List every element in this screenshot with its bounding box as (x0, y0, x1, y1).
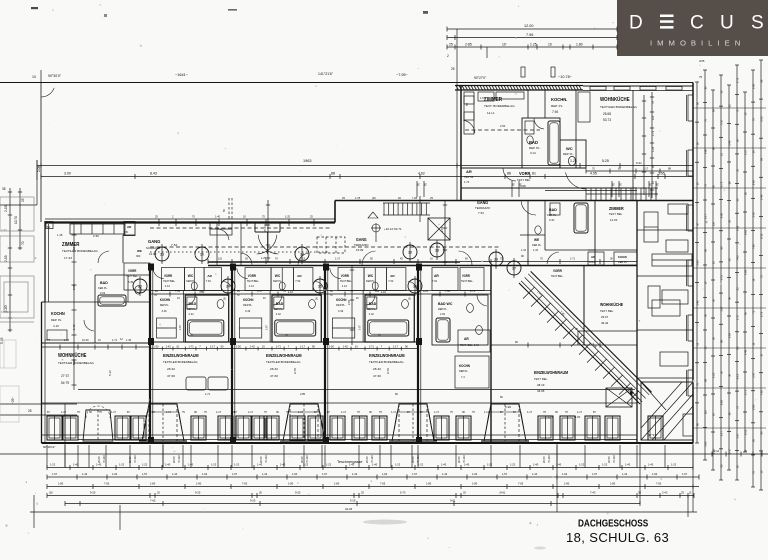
svg-text:20-59: 20-59 (607, 456, 611, 463)
svg-text:47·60: 47·60 (167, 374, 175, 378)
svg-text:110: 110 (704, 410, 708, 415)
svg-text:90°16'12'': 90°16'12'' (43, 445, 56, 449)
svg-text:EINZELWOHNRAUM: EINZELWOHNRAUM (369, 353, 405, 358)
svg-text:7-65: 7-65 (175, 289, 181, 293)
svg-text:KOCHN: KOCHN (243, 298, 253, 302)
svg-text:7-65: 7-65 (736, 255, 740, 261)
svg-text:TEXT. BEL.: TEXT. BEL. (609, 212, 623, 216)
svg-text:1-17: 1-17 (643, 167, 649, 171)
svg-text:20-59: 20-59 (365, 456, 369, 463)
svg-text:1-40: 1-40 (533, 463, 539, 467)
svg-text:1-42: 1-42 (352, 472, 358, 476)
svg-text:TEXT. BEL. 2·16: TEXT. BEL. 2·16 (460, 343, 480, 347)
svg-text:1-80: 1-80 (744, 269, 748, 275)
svg-text:1-57: 1-57 (257, 289, 263, 293)
svg-text:8.43: 8.43 (150, 172, 157, 176)
right column walls (636, 200, 638, 443)
stair step rungs (523, 287, 535, 299)
stair hatch corridor top-right (586, 188, 658, 200)
svg-text:1-17: 1-17 (720, 431, 724, 437)
svg-text:1-17: 1-17 (704, 214, 708, 220)
svg-text:47·60: 47·60 (373, 374, 381, 378)
svg-text:3·49: 3·49 (245, 309, 251, 313)
svg-text:25: 25 (451, 67, 455, 71)
svg-text:REP. PL.: REP. PL. (551, 104, 563, 108)
svg-text:5-73: 5-73 (400, 491, 406, 495)
svg-text:25: 25 (28, 409, 32, 413)
unit1 inner wall x=123 (122, 235, 124, 263)
svg-text:1-73: 1-73 (760, 311, 764, 317)
svg-text:1-50: 1-50 (153, 345, 159, 349)
svg-text:54·79: 54·79 (61, 381, 69, 385)
svg-text:VORR: VORR (248, 274, 257, 278)
svg-text:1-40: 1-40 (648, 463, 654, 467)
svg-text:20-59: 20-59 (300, 456, 304, 463)
svg-text:1-22: 1-22 (326, 463, 332, 467)
svg-text:81: 81 (532, 172, 536, 176)
svg-text:2-43: 2-43 (662, 491, 668, 495)
svg-text:88: 88 (507, 172, 511, 176)
svg-text:1-73: 1-73 (651, 130, 655, 136)
svg-text:1-40: 1-40 (73, 463, 79, 467)
svg-text:20-59: 20-59 (259, 456, 263, 463)
svg-text:70-110: 70-110 (305, 455, 309, 463)
svg-text:TEXT. BODENBELAG: TEXT. BODENBELAG (484, 104, 515, 108)
svg-text:1-50: 1-50 (575, 415, 581, 419)
corridor stair hatch west (383, 202, 430, 204)
svg-text:2-85: 2-85 (4, 205, 8, 212)
hall walls top-right (461, 167, 586, 169)
svg-text:WE: WE (534, 238, 539, 242)
svg-text:7.28: 7.28 (412, 196, 418, 200)
svg-text:2·42: 2·42 (189, 312, 195, 316)
svg-text:90°27'0'': 90°27'0'' (474, 76, 487, 80)
svg-text:110: 110 (375, 289, 380, 293)
faint neighbour rooms left (0, 197, 34, 322)
svg-text:1.80: 1.80 (576, 43, 583, 47)
svg-text:20-59: 20-59 (97, 456, 101, 463)
vertical dim line x=713 (712, 90, 714, 470)
svg-text:20-59: 20-59 (128, 456, 132, 463)
svg-text:1-57: 1-57 (502, 472, 508, 476)
svg-text:TERRAZZO: TERRAZZO (354, 243, 368, 247)
svg-text:AR: AR (464, 337, 469, 341)
svg-text:GANG: GANG (148, 239, 161, 244)
window band top line (42, 402, 637, 404)
svg-text:TEXT. BEL.: TEXT. BEL. (517, 178, 531, 182)
svg-text:1-40: 1-40 (441, 463, 447, 467)
dimension row 3 (47, 486, 699, 488)
svg-text:1-57: 1-57 (142, 472, 148, 476)
arched dormer (83, 410, 113, 441)
vertical dim line x=729 (728, 85, 730, 470)
svg-text:1-40: 1-40 (280, 463, 286, 467)
svg-text:1-50: 1-50 (236, 345, 242, 349)
svg-text:1-17: 1-17 (298, 410, 304, 414)
svg-text:1-40: 1-40 (188, 463, 194, 467)
svg-text:1-17: 1-17 (720, 119, 724, 125)
unit separating walls (149, 266, 151, 444)
svg-text:1-22: 1-22 (510, 463, 516, 467)
svg-text:17·23: 17·23 (64, 256, 72, 260)
svg-text:TEXTILER BODENBELAG: TEXTILER BODENBELAG (163, 360, 198, 364)
svg-text:1-17: 1-17 (720, 306, 724, 312)
svg-text:1-92: 1-92 (112, 472, 118, 476)
svg-text:AR: AR (466, 169, 472, 174)
svg-text:35: 35 (2, 187, 6, 191)
svg-text:1-42: 1-42 (381, 290, 387, 294)
svg-text:1-17: 1-17 (341, 410, 347, 414)
entry thresholds from gang (210, 223, 232, 235)
wall x=633 (632, 90, 634, 200)
svg-text:1-22: 1-22 (395, 463, 401, 467)
svg-text:3·4C: 3·4C (549, 218, 555, 222)
svg-text:1-71: 1-71 (205, 392, 211, 396)
svg-text:2·42: 2·42 (369, 312, 375, 316)
svg-text:1-57: 1-57 (232, 472, 238, 476)
svg-text:70-110: 70-110 (370, 455, 374, 463)
svg-text:9-25: 9-25 (423, 289, 429, 293)
svg-text:2-85: 2-85 (752, 180, 756, 186)
room KOCHN unit5 (455, 356, 489, 388)
dashed verticals above wall (228, 198, 230, 219)
svg-text:2-85: 2-85 (744, 229, 748, 235)
svg-text:5-25: 5-25 (350, 499, 356, 503)
svg-text:VORR: VORR (128, 269, 137, 273)
svg-text:1-40: 1-40 (349, 463, 355, 467)
svg-text:52: 52 (465, 102, 469, 106)
svg-text:1-57: 1-57 (752, 372, 756, 378)
svg-text:1-40: 1-40 (165, 463, 171, 467)
svg-text:1-57: 1-57 (412, 472, 418, 476)
dimension row 1 (47, 467, 693, 469)
top wall thin continuation + windows (583, 85, 693, 87)
svg-text:10.70: 10.70 (14, 216, 18, 224)
svg-text:1-80: 1-80 (712, 448, 716, 454)
svg-text:9-70: 9-70 (386, 368, 390, 374)
svg-text:2-13: 2-13 (744, 429, 748, 435)
svg-text:1-92: 1-92 (382, 472, 388, 476)
core top tick dims (150, 293, 491, 295)
svg-text:1-80: 1-80 (288, 482, 294, 486)
svg-text:300: 300 (136, 254, 141, 258)
svg-text:110: 110 (651, 115, 655, 120)
svg-text:1-40: 1-40 (744, 349, 748, 355)
svg-text:TEXT.BEL.: TEXT.BEL. (551, 274, 564, 278)
svg-text:2: 2 (447, 54, 449, 58)
svg-text:1-50: 1-50 (329, 345, 335, 349)
svg-text:1-17: 1-17 (335, 257, 341, 261)
svg-text:18, SCHULG. 63: 18, SCHULG. 63 (566, 530, 669, 545)
wall x=584 (583, 266, 585, 346)
svg-text:70-110: 70-110 (416, 455, 420, 463)
svg-text:5-25: 5-25 (752, 212, 756, 218)
top-right apartment hatched top wall (455, 85, 583, 87)
dashed slope line corridor (150, 246, 500, 248)
svg-text:2·13: 2·13 (342, 284, 348, 288)
svg-text:1-73: 1-73 (720, 275, 724, 281)
svg-text:BAD WC: BAD WC (438, 302, 453, 306)
svg-text:1-92: 1-92 (202, 472, 208, 476)
svg-text:1-22: 1-22 (579, 463, 585, 467)
svg-text:1-80: 1-80 (704, 441, 708, 447)
svg-text:1-17: 1-17 (391, 410, 397, 414)
svg-text:12·L1: 12·L1 (487, 111, 495, 115)
svg-text:1-22: 1-22 (418, 463, 424, 467)
dashed line above window band (78, 389, 635, 391)
svg-text:1-22: 1-22 (602, 463, 608, 467)
svg-text:1-71: 1-71 (369, 345, 375, 349)
svg-text:REP. PL.: REP. PL. (529, 146, 541, 150)
svg-text:TERRAZZO: TERRAZZO (475, 206, 491, 210)
svg-text:1·71: 1·71 (112, 338, 118, 342)
dimension lines top right (447, 28, 617, 30)
svg-text:7·62: 7·62 (388, 279, 394, 283)
svg-text:7.96: 7.96 (526, 33, 533, 37)
svg-text:1.25: 1.25 (530, 43, 537, 47)
svg-text:1-42: 1-42 (622, 472, 628, 476)
svg-text:3.00: 3.00 (64, 172, 71, 176)
svg-text:9-25: 9-25 (295, 491, 301, 495)
svg-text:1-22: 1-22 (211, 463, 217, 467)
svg-text:1-17: 1-17 (527, 410, 533, 414)
vertical dim line x=745 (744, 92, 746, 452)
svg-text:1-71: 1-71 (189, 345, 195, 349)
svg-text:70-110: 70-110 (612, 455, 616, 463)
svg-text:REP.PL.: REP.PL. (160, 303, 170, 307)
svg-text:2-13: 2-13 (300, 257, 306, 261)
bottom-most line (30, 511, 697, 513)
right strip horizontal connectors (693, 107, 766, 109)
svg-text:~1641~: ~1641~ (175, 73, 189, 77)
svg-text:1-25: 1-25 (712, 372, 716, 378)
svg-text:20-59: 20-59 (542, 456, 546, 463)
svg-text:9-25: 9-25 (195, 491, 201, 495)
svg-text:7-65: 7-65 (150, 499, 156, 503)
main band bottom wall (42, 442, 694, 444)
svg-text:2-85: 2-85 (300, 392, 306, 396)
svg-text:100.B: 100.B (589, 260, 596, 264)
svg-text:7·54: 7·54 (478, 211, 484, 215)
svg-text:9-25: 9-25 (90, 491, 96, 495)
smudge bottom center (363, 520, 407, 525)
dimension row 5 (65, 503, 640, 505)
svg-text:75-170: 75-170 (263, 223, 267, 232)
vertical dim line x=737 (736, 65, 738, 480)
svg-text:7·62: 7·62 (295, 279, 301, 283)
svg-text:2·13: 2·13 (249, 284, 255, 288)
svg-text:AR: AR (297, 274, 302, 278)
svg-text:110: 110 (218, 257, 223, 261)
svg-text:1.55: 1.55 (658, 172, 665, 176)
right col closet fixtures (668, 204, 688, 214)
svg-text:141°21'6'': 141°21'6'' (318, 72, 333, 76)
unit 4 service core (325, 290, 418, 292)
svg-text:EINZELWOHNRAUM: EINZELWOHNRAUM (534, 370, 568, 375)
svg-text:KOCHN.: KOCHN. (551, 97, 567, 102)
svg-text:28·32: 28·32 (270, 367, 278, 371)
left wall step (42, 301, 46, 303)
svg-text:70-110: 70-110 (462, 455, 466, 463)
dimension row 4 (47, 495, 694, 497)
svg-text:VORR: VORR (164, 274, 173, 278)
svg-text:7-43: 7-43 (590, 491, 596, 495)
svg-text:7·4: 7·4 (461, 375, 465, 379)
svg-text:20-59: 20-59 (172, 456, 176, 463)
vertical dim line x=753 (752, 70, 754, 487)
svg-text:6.41: 6.41 (636, 161, 642, 165)
svg-text:5·96: 5·96 (505, 405, 511, 409)
svg-text:AR: AR (434, 274, 439, 278)
svg-text:1-40: 1-40 (625, 463, 631, 467)
room BAD top-right (522, 118, 560, 168)
svg-text:TEXTILER BODENBELAG: TEXTILER BODENBELAG (369, 360, 404, 364)
svg-text:1-92: 1-92 (652, 472, 658, 476)
svg-text:KER.PL.: KER.PL. (532, 243, 542, 247)
svg-text:70-110: 70-110 (102, 455, 106, 463)
svg-text:1-57: 1-57 (322, 472, 328, 476)
svg-text:TEXT.BEL.: TEXT.BEL. (340, 279, 353, 283)
svg-text:1-25: 1-25 (285, 215, 291, 219)
svg-text:WC: WC (275, 274, 281, 278)
room AR unit5 lower (458, 330, 490, 352)
crossed shaft small (606, 388, 632, 407)
svg-text:75: 75 (699, 75, 703, 79)
svg-text:KOCHN: KOCHN (336, 298, 346, 302)
svg-text:KER.PL.: KER.PL. (618, 260, 628, 264)
svg-text:D: D (629, 13, 643, 34)
svg-text:7-65: 7-65 (752, 244, 756, 250)
dormer at x=413 (392, 404, 434, 441)
svg-text:2-85: 2-85 (752, 404, 756, 410)
svg-text:KOCHN: KOCHN (1, 310, 12, 314)
svg-text:10·30: 10·30 (82, 338, 89, 342)
room WC top-right (560, 140, 586, 168)
svg-text:5-43: 5-43 (0, 337, 4, 344)
staircase diagonal flight (519, 283, 640, 404)
dormer at x=505 (484, 404, 526, 441)
svg-text:1-42: 1-42 (288, 290, 294, 294)
unit 3 service core (232, 290, 325, 292)
room AR apartment NE (588, 252, 604, 265)
svg-text:VORR: VORR (519, 171, 530, 176)
room KOCHN unit1 (42, 301, 151, 303)
svg-text:88: 88 (331, 172, 335, 176)
svg-text:WOHNKÜCHE: WOHNKÜCHE (600, 302, 623, 308)
svg-text:TEXT.BEL.: TEXT.BEL. (163, 279, 176, 283)
svg-text:3.14: 3.14 (530, 151, 536, 155)
svg-text:1-80: 1-80 (704, 149, 708, 155)
room WC unit1 (127, 275, 129, 302)
svg-text:20-59: 20-59 (411, 456, 415, 463)
svg-text:1-17: 1-17 (166, 410, 172, 414)
svg-text:9-25: 9-25 (250, 499, 256, 503)
dimension line 1963 (37, 165, 693, 167)
svg-text:2-53: 2-53 (347, 299, 351, 305)
svg-text:S: S (751, 13, 764, 34)
svg-text:5-13: 5-13 (72, 359, 76, 365)
svg-text:1-22: 1-22 (487, 463, 493, 467)
svg-text:53.73: 53.73 (603, 118, 611, 122)
dormer at x=304 (283, 404, 325, 441)
svg-text:1-80: 1-80 (196, 482, 202, 486)
svg-text:7·54: 7·54 (171, 243, 177, 247)
dimension line second row (41, 176, 693, 178)
svg-text:10: 10 (548, 43, 552, 47)
svg-text:4.98: 4.98 (520, 184, 526, 188)
double door recess in top wall (254, 223, 256, 233)
svg-text:TEXT.B.: TEXT.B. (464, 175, 474, 179)
svg-text:KOCHN: KOCHN (160, 298, 170, 302)
svg-text:1-22: 1-22 (50, 463, 56, 467)
svg-text:1-40: 1-40 (72, 324, 76, 330)
svg-text:5-13: 5-13 (108, 370, 112, 376)
svg-text:TEXTILER BODENBELAG: TEXTILER BODENBELAG (62, 249, 99, 253)
svg-text:2·42: 2·42 (276, 312, 282, 316)
svg-text:70-110: 70-110 (177, 455, 181, 463)
dashed wardrobe unit3 (317, 237, 345, 253)
svg-text:1-42: 1-42 (442, 472, 448, 476)
svg-text:9-61: 9-61 (450, 499, 456, 503)
svg-text:1-80: 1-80 (472, 482, 478, 486)
svg-text:2-53: 2-53 (440, 226, 444, 232)
misc extension lines (456, 160, 458, 200)
svg-text:GANG: GANG (356, 237, 367, 242)
svg-text:1-40: 1-40 (728, 140, 732, 146)
svg-text:1·33: 1·33 (126, 338, 132, 342)
svg-text:2-85: 2-85 (720, 399, 724, 405)
svg-text:1-80: 1-80 (150, 482, 156, 486)
corridor tick dims (208, 261, 637, 263)
long site line y=454 (0, 453, 768, 455)
svg-text:AR: AR (390, 274, 395, 278)
stamp circles corridor row (155, 247, 169, 261)
svg-text:1963: 1963 (303, 159, 311, 163)
svg-text:1-42: 1-42 (82, 472, 88, 476)
svg-text:VORR: VORR (462, 274, 471, 278)
svg-text:28·32: 28·32 (167, 367, 175, 371)
svg-text:2·92: 2·92 (440, 312, 446, 316)
svg-text:VORR: VORR (553, 269, 562, 273)
svg-text:7-65: 7-65 (760, 390, 764, 396)
svg-text:1-57: 1-57 (52, 472, 58, 476)
svg-text:1-17: 1-17 (484, 410, 490, 414)
svg-text:ZIMMER: ZIMMER (62, 242, 80, 248)
svg-text:T.B.: T.B. (124, 230, 129, 234)
svg-text:1-71: 1-71 (276, 345, 282, 349)
svg-text:ZIMMER: ZIMMER (484, 97, 502, 103)
svg-text:1-80: 1-80 (426, 482, 432, 486)
svg-text:12·52: 12·52 (610, 218, 618, 222)
svg-text:1-80: 1-80 (564, 482, 570, 486)
svg-text:1-42: 1-42 (262, 472, 268, 476)
svg-text:2·50: 2·50 (93, 234, 99, 238)
svg-text:1-87: 1-87 (357, 324, 361, 330)
svg-text:(40: (40 (372, 196, 376, 200)
svg-text:2-13: 2-13 (760, 233, 764, 239)
svg-text:1-17: 1-17 (300, 345, 306, 349)
svg-text:1-42: 1-42 (172, 472, 178, 476)
svg-text:1-71: 1-71 (470, 289, 476, 293)
svg-text:TEXT.BEL.: TEXT.BEL. (247, 279, 260, 283)
svg-text:25.68: 25.68 (603, 112, 611, 116)
svg-text:REP.PL.: REP.PL. (336, 303, 346, 307)
svg-text:5-25: 5-25 (696, 260, 700, 266)
svg-text:1.74: 1.74 (464, 180, 470, 184)
svg-text:43·66: 43·66 (537, 389, 545, 393)
svg-text:7.94: 7.94 (552, 110, 558, 114)
svg-text:1-71: 1-71 (736, 77, 740, 83)
